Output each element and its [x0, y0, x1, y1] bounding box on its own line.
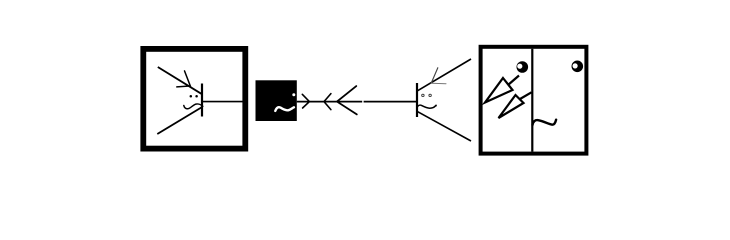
transistor Q2 arrowhead	[431, 68, 438, 83]
arrowhead right-pointing	[302, 94, 309, 108]
left box U1	[143, 49, 245, 149]
arrow D1 shaft	[508, 76, 519, 86]
arrow D2 triangle	[499, 95, 524, 118]
transistor Q1 lower diagonal	[157, 107, 201, 134]
arrow D2 shaft	[520, 92, 532, 99]
black square M1	[256, 80, 297, 121]
transistor Q1 mouth	[184, 104, 203, 109]
right eye circle	[572, 61, 584, 73]
white tilde in M1	[275, 107, 294, 111]
transistor Q1 arrowhead	[177, 71, 191, 87]
transistor Q1 eyes	[190, 95, 193, 98]
transistor Q2 lower diagonal	[417, 111, 471, 141]
left eye circle	[517, 61, 529, 73]
tilde in right box	[533, 120, 557, 125]
transistor Q1 upper diagonal	[158, 67, 202, 94]
arrow D1 triangle	[485, 78, 513, 103]
transistor Q1 bar	[201, 84, 203, 117]
transistor Q2 upper diagonal	[417, 59, 471, 91]
right box U2	[481, 47, 587, 154]
white dot in M1	[292, 93, 295, 96]
transistor Q2 eyes	[422, 94, 424, 96]
transistor Q2 bar	[416, 83, 418, 117]
wire from Q1 to box edge	[203, 101, 244, 103]
wire to Q2	[364, 101, 417, 103]
divider line	[531, 49, 533, 152]
chevron left-pointing	[324, 94, 331, 110]
big arrowhead left-pointing	[337, 86, 357, 114]
wire from M1 to big arrow	[297, 101, 362, 103]
transistor Q2 mouth	[417, 105, 436, 108]
